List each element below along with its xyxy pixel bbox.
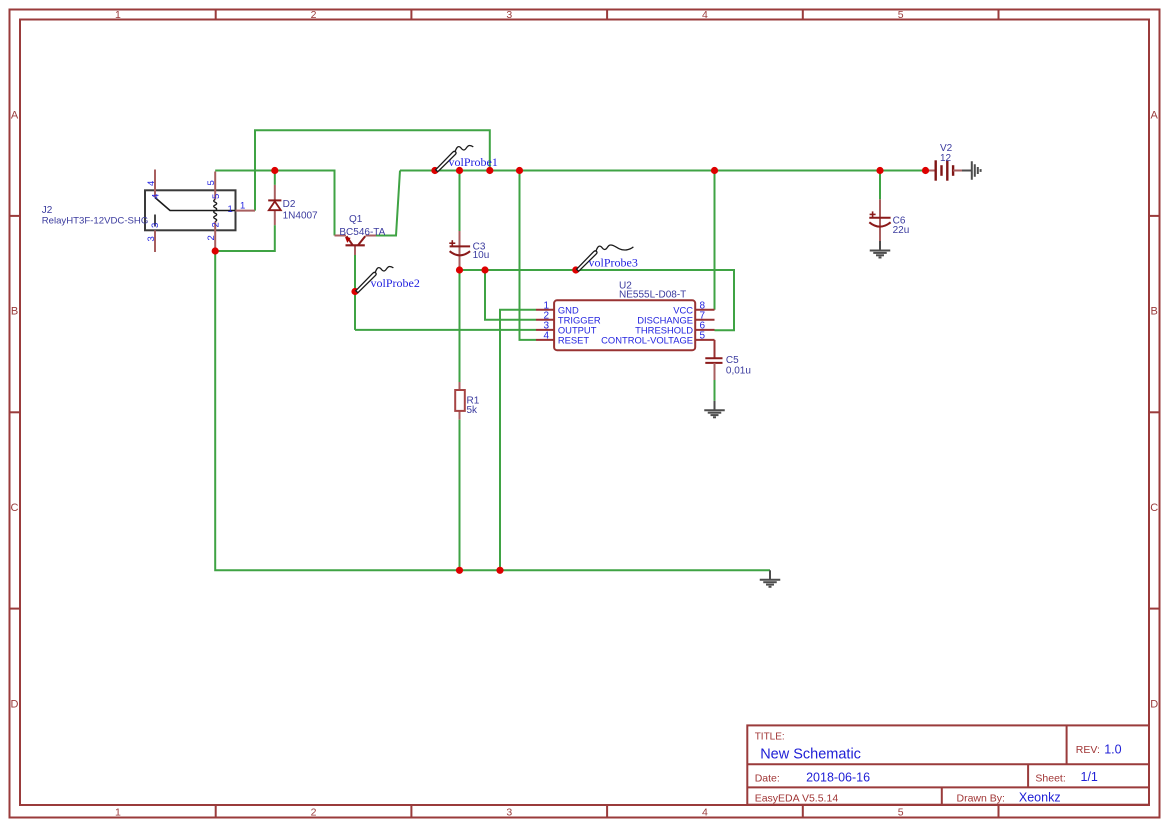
svg-text:5: 5 [206,180,217,185]
svg-text:2: 2 [311,9,317,21]
svg-text:4: 4 [151,194,162,199]
svg-text:Sheet:: Sheet: [1035,772,1065,784]
svg-text:A: A [11,110,19,122]
svg-text:4: 4 [702,806,708,818]
svg-text:5: 5 [211,194,222,199]
svg-text:10u: 10u [473,250,490,261]
svg-text:3: 3 [506,9,512,21]
svg-text:B: B [1151,306,1158,318]
svg-text:12: 12 [940,153,952,164]
svg-text:CONTROL-VOLTAGE: CONTROL-VOLTAGE [601,335,693,346]
svg-text:NE555L-D08-T: NE555L-D08-T [619,290,686,301]
svg-text:1: 1 [115,9,121,21]
svg-text:5: 5 [898,806,904,818]
svg-text:J2: J2 [42,205,53,216]
svg-text:D: D [11,699,19,711]
svg-text:C: C [1150,502,1158,514]
svg-text:5: 5 [700,331,706,342]
svg-text:Q1: Q1 [349,214,363,225]
svg-text:5: 5 [898,9,904,21]
svg-text:5k: 5k [467,405,479,416]
svg-text:1N4007: 1N4007 [283,211,318,222]
svg-text:2: 2 [311,806,317,818]
svg-text:3: 3 [506,806,512,818]
svg-text:D2: D2 [283,199,296,210]
svg-text:TITLE:: TITLE: [755,731,785,742]
svg-text:1.0: 1.0 [1104,743,1121,757]
svg-text:2: 2 [206,235,217,240]
svg-text:volProbe2: volProbe2 [371,276,420,290]
svg-text:1: 1 [115,806,121,818]
svg-text:2: 2 [211,222,222,227]
svg-text:Xeonkz: Xeonkz [1019,791,1061,805]
svg-text:D: D [1150,699,1158,711]
svg-text:0,01u: 0,01u [726,366,751,377]
svg-text:4: 4 [146,181,157,186]
svg-text:B: B [11,306,18,318]
svg-text:1: 1 [240,201,245,212]
svg-text:4: 4 [702,9,708,21]
svg-text:2018-06-16: 2018-06-16 [806,771,870,785]
svg-text:Date:: Date: [755,772,780,784]
svg-text:volProbe1: volProbe1 [449,155,498,169]
svg-text:A: A [1151,110,1159,122]
svg-text:C5: C5 [726,355,739,366]
svg-text:3: 3 [150,223,161,228]
svg-text:REV:: REV: [1076,744,1100,756]
svg-text:RESET: RESET [558,335,590,346]
svg-text:Drawn By:: Drawn By: [957,792,1005,804]
svg-text:4: 4 [543,331,549,342]
svg-text:RelayHT3F-12VDC-SHG: RelayHT3F-12VDC-SHG [42,216,149,227]
svg-text:1: 1 [228,204,233,215]
svg-text:EasyEDA V5.5.14: EasyEDA V5.5.14 [755,792,839,804]
svg-text:C: C [11,502,19,514]
svg-text:volProbe3: volProbe3 [589,256,638,270]
svg-text:22u: 22u [893,225,910,236]
svg-text:3: 3 [146,236,157,241]
svg-text:New Schematic: New Schematic [760,747,861,763]
svg-text:BC546-TA: BC546-TA [339,227,385,238]
svg-text:1/1: 1/1 [1081,770,1098,784]
